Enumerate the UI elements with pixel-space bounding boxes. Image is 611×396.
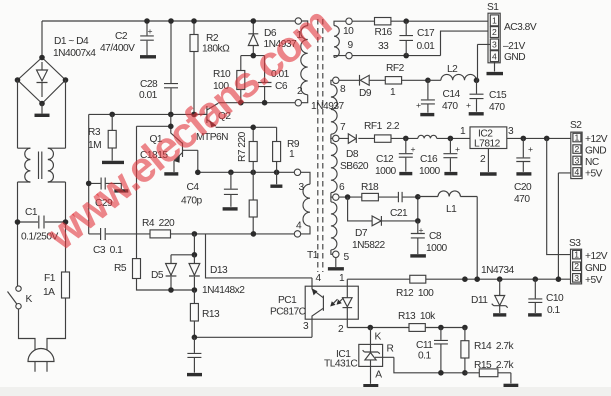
svg-text:D7: D7 — [355, 228, 368, 239]
svg-text:3: 3 — [508, 126, 514, 137]
svg-text:R13: R13 — [202, 309, 220, 320]
T1 primary winding 1-2 — [295, 18, 308, 106]
svg-text:+12V: +12V — [585, 251, 608, 262]
svg-text:L1: L1 — [446, 204, 457, 215]
svg-text:C15: C15 — [489, 90, 507, 101]
diode D6 — [248, 18, 297, 55]
fuse F1 — [43, 272, 70, 298]
connector S3 — [569, 238, 608, 286]
svg-text:1: 1 — [460, 126, 466, 137]
left AC rails — [18, 80, 66, 288]
transformer T1 core — [307, 19, 323, 272]
resistor R13 — [190, 290, 220, 337]
resistor RF1 — [364, 121, 418, 142]
svg-text:1: 1 — [492, 16, 497, 26]
svg-text:+: + — [466, 100, 471, 110]
svg-text:GND: GND — [585, 263, 606, 274]
capacitor C12 — [375, 136, 416, 177]
svg-text:C28: C28 — [140, 79, 158, 90]
svg-text:3: 3 — [574, 273, 579, 283]
capacitor C1 — [15, 207, 69, 243]
svg-text:R12 100: R12 100 — [396, 288, 434, 299]
svg-text:7: 7 — [340, 122, 346, 133]
resistor R7 — [237, 125, 257, 173]
node column / Q1 collector link — [137, 114, 183, 143]
svg-text:R16: R16 — [375, 27, 393, 38]
transistor Q1 — [140, 134, 198, 174]
svg-text:180kΩ: 180kΩ — [202, 44, 230, 55]
R12 / +5V line — [347, 265, 570, 299]
svg-text:4: 4 — [296, 221, 302, 232]
svg-text:K: K — [375, 332, 382, 343]
svg-text:4: 4 — [575, 167, 580, 177]
svg-text:2: 2 — [574, 261, 579, 271]
svg-text:C14: C14 — [443, 89, 461, 100]
AC plug — [19, 298, 66, 372]
svg-text:R4 220: R4 220 — [142, 218, 175, 229]
optocoupler PC1 — [270, 273, 358, 335]
svg-text:D11: D11 — [471, 295, 488, 306]
svg-text:L2: L2 — [447, 64, 458, 75]
capacitor C14 — [416, 80, 461, 114]
svg-text:C16: C16 — [420, 154, 438, 165]
switch K — [8, 286, 33, 309]
svg-text:–21V: –21V — [503, 41, 525, 52]
svg-text:1N5822: 1N5822 — [352, 240, 386, 251]
snubber R10 / C6 — [213, 53, 290, 103]
svg-text:S1: S1 — [487, 2, 499, 13]
svg-text:C10: C10 — [546, 293, 564, 304]
gate line — [89, 112, 207, 118]
svg-text:D9: D9 — [359, 88, 372, 99]
svg-text:+5V: +5V — [585, 169, 603, 180]
svg-text:D8: D8 — [346, 149, 359, 160]
svg-text:AC3.8V: AC3.8V — [504, 22, 537, 33]
svg-text:4: 4 — [316, 273, 322, 284]
resistor R3 — [88, 114, 124, 162]
capacitor C20 — [514, 136, 533, 205]
bridge rectifier D1-D4 — [15, 36, 97, 106]
svg-text:C20: C20 — [514, 182, 532, 193]
svg-text:3: 3 — [299, 182, 305, 193]
svg-text:9: 9 — [348, 40, 354, 51]
svg-text:T1: T1 — [307, 250, 319, 261]
bottom scan band — [0, 387, 611, 396]
resistor RF2 — [385, 63, 428, 98]
svg-text:1A: 1A — [43, 287, 55, 298]
diode D8 — [339, 134, 375, 172]
svg-text:2: 2 — [492, 27, 497, 37]
capacitor C16 — [419, 136, 460, 177]
svg-text:C4: C4 — [187, 182, 200, 193]
svg-text:TL431C: TL431C — [324, 359, 357, 370]
svg-text:1: 1 — [574, 250, 579, 260]
svg-text:SB620: SB620 — [340, 161, 369, 172]
svg-text:+: + — [411, 144, 416, 154]
svg-text:3: 3 — [492, 40, 497, 50]
inductor L1 — [418, 191, 477, 279]
common-mode choke windings — [25, 148, 54, 182]
svg-text:+: + — [455, 144, 460, 154]
MOSFET Q2 — [194, 103, 277, 143]
zener D11 — [471, 279, 508, 315]
svg-text:5: 5 — [344, 252, 350, 263]
svg-text:33: 33 — [378, 41, 389, 52]
svg-text:+12V: +12V — [585, 134, 608, 145]
feedback pin-3 line — [195, 170, 295, 176]
T1 secondary winding 10-9 — [334, 18, 354, 59]
svg-text:C17: C17 — [417, 28, 435, 39]
svg-text:0.1: 0.1 — [418, 351, 431, 362]
svg-text:RF2: RF2 — [386, 63, 405, 74]
capacitor C10 — [528, 279, 564, 316]
capacitor C15 — [466, 80, 507, 114]
svg-text:A: A — [375, 370, 382, 381]
shunt regulator IC1 TL431 — [324, 328, 465, 386]
resistor R8 (unlabeled) — [249, 172, 257, 234]
ground under bridge — [35, 104, 50, 116]
drain line to pin 2 — [218, 100, 295, 106]
capacitor C4 — [181, 172, 238, 209]
svg-text:D1 ~ D4: D1 ~ D4 — [54, 36, 89, 47]
inductor L2 — [425, 44, 479, 83]
svg-text:R7 220: R7 220 — [237, 131, 248, 162]
capacitor C2 — [100, 18, 156, 57]
svg-text:470: 470 — [442, 101, 458, 112]
capacitor C17 — [399, 21, 435, 55]
diodes D5 / D13 pair — [151, 234, 245, 296]
svg-text:2: 2 — [297, 86, 303, 97]
K line: PC1 pin2 to TL431 — [347, 311, 467, 331]
T1 secondary winding 6-5 — [331, 197, 350, 263]
svg-text:C11: C11 — [416, 340, 433, 351]
svg-text:1000: 1000 — [375, 166, 396, 177]
top +310V rail — [42, 21, 295, 58]
wire R4-line to PC1 pin4 — [206, 234, 313, 286]
+12V drop to S3 — [544, 136, 571, 255]
svg-text:S3: S3 — [569, 238, 581, 249]
capacitor C29 — [86, 178, 128, 210]
capacitor C28 — [139, 18, 178, 114]
regulator IC2 L7812 — [460, 126, 571, 174]
svg-text:1: 1 — [289, 149, 295, 160]
connector S2 — [570, 120, 608, 180]
svg-text:R2: R2 — [206, 33, 219, 44]
svg-text:470: 470 — [489, 102, 505, 113]
svg-text:1: 1 — [339, 273, 345, 284]
svg-text:47/400V: 47/400V — [100, 43, 135, 54]
resistor R2 — [190, 18, 230, 114]
svg-text:D5: D5 — [151, 270, 164, 281]
svg-text:8: 8 — [340, 84, 346, 95]
svg-text:1000: 1000 — [426, 243, 447, 254]
svg-text:GND: GND — [504, 52, 525, 63]
svg-text:C2: C2 — [115, 31, 128, 42]
svg-text:C3 0.1: C3 0.1 — [93, 245, 123, 256]
resistor R5 column — [114, 126, 194, 290]
svg-text:470: 470 — [514, 194, 530, 205]
svg-text:C1: C1 — [25, 207, 38, 218]
T1 pin5 ground — [328, 257, 344, 269]
svg-text:PC1: PC1 — [278, 295, 297, 306]
svg-text:2: 2 — [575, 144, 580, 154]
svg-text:K: K — [26, 294, 33, 305]
inductor (filter choke) — [418, 135, 470, 138]
svg-text:1N4148x2: 1N4148x2 — [202, 285, 245, 296]
svg-text:R18: R18 — [361, 182, 379, 193]
svg-text:4: 4 — [492, 51, 497, 61]
svg-text:2: 2 — [338, 324, 344, 335]
R16 line (pins 10-9 loop) — [352, 18, 488, 59]
svg-text:+: + — [416, 100, 421, 110]
svg-text:470p: 470p — [181, 196, 202, 207]
svg-text:C8: C8 — [429, 231, 442, 242]
+5V drop from S2 pin4 — [558, 173, 570, 279]
R4 line with C3 — [89, 218, 296, 256]
svg-text:1N4937: 1N4937 — [311, 101, 345, 112]
svg-text:1M: 1M — [88, 140, 101, 151]
svg-text:1N4734: 1N4734 — [481, 265, 515, 276]
svg-text:0.01: 0.01 — [139, 90, 158, 101]
svg-text:R5: R5 — [114, 263, 127, 274]
svg-text:+: + — [148, 26, 153, 36]
svg-text:S2: S2 — [570, 120, 582, 131]
svg-text:R15 2.7k: R15 2.7k — [474, 360, 515, 371]
capacitor (unlabeled) under R13 — [187, 337, 202, 374]
svg-text:GND: GND — [585, 146, 606, 157]
T1 secondary winding 7-6 — [331, 138, 345, 200]
svg-text:NC: NC — [585, 157, 599, 168]
svg-text:D13: D13 — [210, 265, 228, 276]
R13 bottom line to PC1 pin3 — [192, 319, 312, 340]
R18 / C21 snubber and D7 — [339, 182, 421, 251]
T1 primary winding 3-4 — [294, 169, 310, 237]
svg-text:L7812: L7812 — [474, 139, 501, 150]
capacitor C8 — [410, 221, 447, 256]
capacitor C11 — [416, 328, 448, 376]
svg-text:2: 2 — [480, 154, 486, 165]
svg-text:+5V: +5V — [585, 275, 603, 286]
svg-text:C12: C12 — [376, 154, 394, 165]
svg-text:3: 3 — [303, 321, 309, 332]
svg-text:1: 1 — [575, 133, 580, 143]
divider R14 / R15 — [461, 328, 518, 386]
resistor R9 — [270, 127, 299, 186]
svg-text:+: + — [528, 144, 533, 154]
svg-text:F1: F1 — [44, 273, 56, 284]
svg-text:0.01: 0.01 — [417, 41, 436, 52]
left gate column — [88, 114, 90, 233]
svg-text:3: 3 — [575, 156, 580, 166]
svg-text:R: R — [387, 344, 394, 355]
svg-text:6: 6 — [339, 182, 345, 193]
T1 secondary winding 8-7 — [331, 77, 346, 141]
connector S1 — [477, 2, 536, 74]
svg-text:+: + — [419, 225, 424, 235]
svg-text:10: 10 — [343, 26, 354, 37]
svg-text:1000: 1000 — [419, 166, 440, 177]
svg-text:1: 1 — [390, 87, 396, 98]
svg-text:R13 10k: R13 10k — [398, 311, 436, 322]
svg-text:RF1 2.2: RF1 2.2 — [364, 121, 400, 132]
svg-text:1N4007x4: 1N4007x4 — [53, 48, 96, 59]
diode D9 — [311, 75, 385, 112]
svg-text:R3: R3 — [88, 127, 101, 138]
svg-text:PC817C: PC817C — [270, 307, 306, 318]
svg-text:R14 2.7k: R14 2.7k — [474, 341, 515, 352]
svg-text:C21: C21 — [390, 208, 408, 219]
svg-text:0.1: 0.1 — [547, 305, 560, 316]
